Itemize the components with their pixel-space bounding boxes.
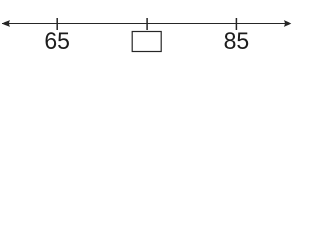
svg-text:65: 65 xyxy=(44,28,70,55)
svg-text:85: 85 xyxy=(224,28,250,55)
